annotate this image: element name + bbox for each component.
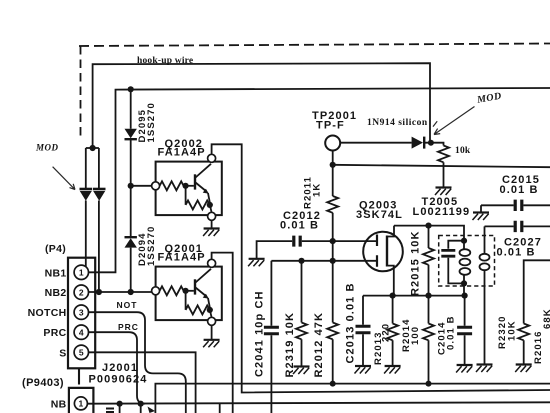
wire long net y165 xyxy=(333,165,550,167)
node NB line junction 2 xyxy=(138,401,144,407)
svg-text:100: 100 xyxy=(410,326,421,345)
test point TP2001 xyxy=(325,136,340,151)
wire D2095/D2094 chain xyxy=(130,89,132,292)
wire NB2 to Q2001 input xyxy=(89,291,152,293)
svg-text:FA1A4P: FA1A4P xyxy=(158,147,206,159)
diode MOD left xyxy=(80,189,93,201)
node gate1/R2011 junction xyxy=(330,238,336,244)
node MOD feed junction xyxy=(90,145,96,151)
svg-text:NB1: NB1 xyxy=(45,267,67,279)
ground C2013 xyxy=(355,366,372,374)
transistor Q2003 gates and channel xyxy=(377,226,394,296)
svg-text:S: S xyxy=(59,347,66,359)
wire T2005 bottom to source net xyxy=(463,283,465,295)
ground 10k xyxy=(435,188,452,196)
inductor T2005 secondary xyxy=(480,226,490,364)
resistor R2319 xyxy=(296,323,307,340)
wire dashed hook-up top xyxy=(79,44,550,47)
wire R2320 net xyxy=(524,260,550,364)
svg-text:0.01 B: 0.01 B xyxy=(497,246,536,258)
node gate2/R2319 junction xyxy=(298,258,304,264)
capacitor C2014 leads xyxy=(464,296,466,365)
ground C2015 xyxy=(473,213,490,221)
svg-text:1: 1 xyxy=(79,268,84,278)
svg-text:1K: 1K xyxy=(312,183,323,197)
wire NB1 to bus y89 xyxy=(89,88,550,272)
wire NB output line xyxy=(87,402,550,403)
svg-text:hook-up wire: hook-up wire xyxy=(137,56,193,66)
svg-text:FA1A4P: FA1A4P xyxy=(158,252,206,264)
svg-text:10k: 10k xyxy=(455,146,471,156)
wire MOD right diode leads xyxy=(98,148,100,292)
diode MOD right xyxy=(93,189,106,201)
node source/R2013 junction xyxy=(390,293,396,299)
wire TP2001 down chain xyxy=(332,151,334,384)
resistor R2012 (zigzag on TP chain) xyxy=(327,323,338,340)
pin 4 xyxy=(74,325,88,339)
node T2005 primary bottom xyxy=(461,280,467,286)
pin 2 xyxy=(74,285,88,299)
ground Q2001 xyxy=(203,340,220,348)
wire connector key stub xyxy=(78,369,80,385)
svg-text:C2041 10p CH: C2041 10p CH xyxy=(254,290,266,377)
diode D 1N914 xyxy=(412,137,425,149)
svg-text:R2015 10K: R2015 10K xyxy=(410,230,422,296)
wire MOD arrow (left) xyxy=(53,167,75,190)
svg-text:L0021199: L0021199 xyxy=(413,206,471,218)
svg-text:0.01 B: 0.01 B xyxy=(500,184,539,196)
op-amp U Q2002 box xyxy=(152,154,222,220)
svg-text:R2012 47K: R2012 47K xyxy=(313,312,325,378)
diode D2095 1SS270 xyxy=(125,129,137,139)
transistor Q2002 internal xyxy=(186,164,211,204)
wire drain net to transformer xyxy=(394,226,464,241)
svg-text:MOD: MOD xyxy=(475,91,502,106)
wire 1N914 to 10k xyxy=(424,143,443,146)
node R2014 top junction xyxy=(425,293,431,299)
wire NB junction drops xyxy=(120,404,220,413)
resistor R2014 leads xyxy=(428,296,430,384)
node NB line junction 1 xyxy=(117,401,123,407)
capacitor C2027 xyxy=(515,221,522,232)
ground C2014 xyxy=(456,365,473,373)
resistor Q2001 base resistor xyxy=(160,286,184,295)
pin 1 xyxy=(74,265,88,279)
wire hook-up (solid) from MOD diodes to 1N914 node xyxy=(93,63,430,148)
node C2014 top junction xyxy=(462,293,468,299)
capacitor C2014 plates xyxy=(457,327,472,333)
wire C2012 net left + ground stub xyxy=(257,241,293,258)
svg-text:MOD: MOD xyxy=(35,143,59,153)
svg-text:68K: 68K xyxy=(542,308,550,329)
node TP/R2011 junction xyxy=(330,162,336,168)
svg-text:1SS270: 1SS270 xyxy=(146,226,157,266)
node MOD junction xyxy=(428,140,434,146)
svg-text:NOTCH: NOTCH xyxy=(28,307,67,319)
wire Q2002 collector output down to lower bus xyxy=(212,144,550,392)
node T2005 primary top xyxy=(461,238,467,244)
resistor R2014 xyxy=(423,324,434,341)
wire C2012 to gate1 xyxy=(302,240,377,242)
ground T2005 secondary xyxy=(476,365,493,373)
pin 3 xyxy=(74,305,88,319)
capacitor C2041 leads xyxy=(270,261,272,413)
node NB2 junction (MOD diode) xyxy=(96,289,102,295)
svg-text:220: 220 xyxy=(381,323,392,342)
connector J2001 (P4) box xyxy=(68,258,95,369)
capacitor C2013 plates xyxy=(356,326,371,332)
resistor R2319 leads xyxy=(301,261,303,366)
svg-text:J2001: J2001 xyxy=(102,362,138,374)
svg-text:R2016: R2016 xyxy=(533,331,544,365)
capacitor (cut off, bottom edge) xyxy=(106,409,114,413)
ground R2320 xyxy=(515,365,532,373)
wire C2015 net with ground stub xyxy=(481,205,550,212)
transformer T2005 dashed box xyxy=(439,236,495,287)
resistor R2015 xyxy=(423,248,434,265)
svg-text:0.01 B: 0.01 B xyxy=(446,315,457,350)
wire MOD left diode leads xyxy=(85,148,87,267)
node R2015 top junction xyxy=(425,223,431,229)
node Q2002 input junction xyxy=(128,183,134,189)
node D2095 top junction xyxy=(128,86,134,92)
ground R2319 xyxy=(293,367,310,375)
transistor Q2003 FET circle xyxy=(363,232,403,272)
svg-text:PRC: PRC xyxy=(43,327,66,339)
node bus/R2014 junction xyxy=(426,381,432,387)
resistor R2013 xyxy=(387,324,398,341)
diode D2094 1SS270 xyxy=(125,237,137,247)
wire PRC xyxy=(89,332,146,404)
wire gate2 net xyxy=(271,260,376,262)
wire main bottom bus xyxy=(155,384,550,413)
node Q2002 emitter node xyxy=(207,202,213,208)
wire Q2001 emitter to pin xyxy=(210,310,212,317)
capacitor C2013 leads xyxy=(362,296,364,366)
wire MOD arrow (right) xyxy=(433,107,475,135)
resistor R2015 leads xyxy=(428,226,430,296)
svg-text:3: 3 xyxy=(79,308,84,318)
resistor Q2001 emitter resistor xyxy=(186,291,210,315)
inductor T2005 primary xyxy=(460,241,471,284)
transistor arrow (cut off, bottom edge) xyxy=(148,407,156,413)
wire Q2002 input xyxy=(131,185,152,187)
node bus/R2012 junction xyxy=(330,381,336,387)
svg-text:3SK74L: 3SK74L xyxy=(356,209,403,221)
wire Q2002 emitter to pin xyxy=(210,205,212,212)
svg-text:4: 4 xyxy=(79,328,84,338)
svg-text:(P9403): (P9403) xyxy=(22,377,64,389)
wire MOD diode harness top bar xyxy=(86,147,99,149)
wire S xyxy=(89,352,196,413)
resistor R2013 leads xyxy=(392,296,394,366)
ground C2012 xyxy=(248,259,265,267)
wire Q2001 collector output down xyxy=(212,253,233,413)
wire C2027 net xyxy=(485,225,550,227)
svg-text:TP-F: TP-F xyxy=(316,120,345,132)
transistor Q2001 internal xyxy=(186,269,211,309)
wire TP2001 to 1N914 xyxy=(340,142,411,144)
pin 5 xyxy=(74,345,88,359)
svg-text:NOT: NOT xyxy=(117,300,138,310)
node Q2001 emitter node xyxy=(207,307,213,313)
svg-text:5: 5 xyxy=(79,348,84,358)
node gate2/R2012 junction xyxy=(330,258,336,264)
wire Q2002 ground stub xyxy=(211,220,213,228)
op-amp U Q2001 box xyxy=(152,259,222,325)
svg-text:(P4): (P4) xyxy=(45,243,66,255)
wire source net y296 xyxy=(363,295,465,297)
node Q2002 base node xyxy=(183,183,189,189)
wire Q2001 ground stub xyxy=(211,325,213,339)
wire dashed left vertical xyxy=(80,46,82,141)
capacitor C2041 plates xyxy=(264,327,279,333)
node NB2 junction (D2094) xyxy=(128,289,134,295)
svg-text:C2013 0.01 B: C2013 0.01 B xyxy=(345,282,357,363)
svg-text:0.01 B: 0.01 B xyxy=(280,220,319,232)
svg-text:1: 1 xyxy=(79,399,84,409)
capacitor T2005 internal xyxy=(441,241,464,284)
resistor Q2002 base resistor xyxy=(160,181,184,190)
svg-text:NB2: NB2 xyxy=(45,287,67,299)
capacitor C2015 xyxy=(515,200,522,211)
svg-text:10K: 10K xyxy=(507,320,518,341)
svg-text:2: 2 xyxy=(79,288,84,298)
connector P9403 box xyxy=(69,388,94,413)
svg-text:1SS270: 1SS270 xyxy=(146,102,157,142)
wire NOTCH (NOT) xyxy=(89,312,186,413)
pin 1 (P9403) xyxy=(74,397,87,410)
wire 10k to ground xyxy=(443,162,445,187)
svg-text:R2319 10K: R2319 10K xyxy=(284,312,296,378)
resistor R 10k xyxy=(438,146,449,163)
svg-text:PRC: PRC xyxy=(118,322,139,332)
svg-text:1N914 silicon: 1N914 silicon xyxy=(367,118,428,128)
ground Q2002 xyxy=(203,229,220,237)
svg-text:NB: NB xyxy=(51,399,67,411)
capacitor C2012 xyxy=(294,236,300,247)
resistor R2011 xyxy=(327,196,338,213)
svg-text:P0090624: P0090624 xyxy=(89,374,148,386)
ground R2013 xyxy=(384,366,401,374)
node Q2001 base node xyxy=(183,288,189,294)
resistor Q2002 emitter resistor xyxy=(186,186,210,210)
resistor R2320 xyxy=(518,324,529,341)
